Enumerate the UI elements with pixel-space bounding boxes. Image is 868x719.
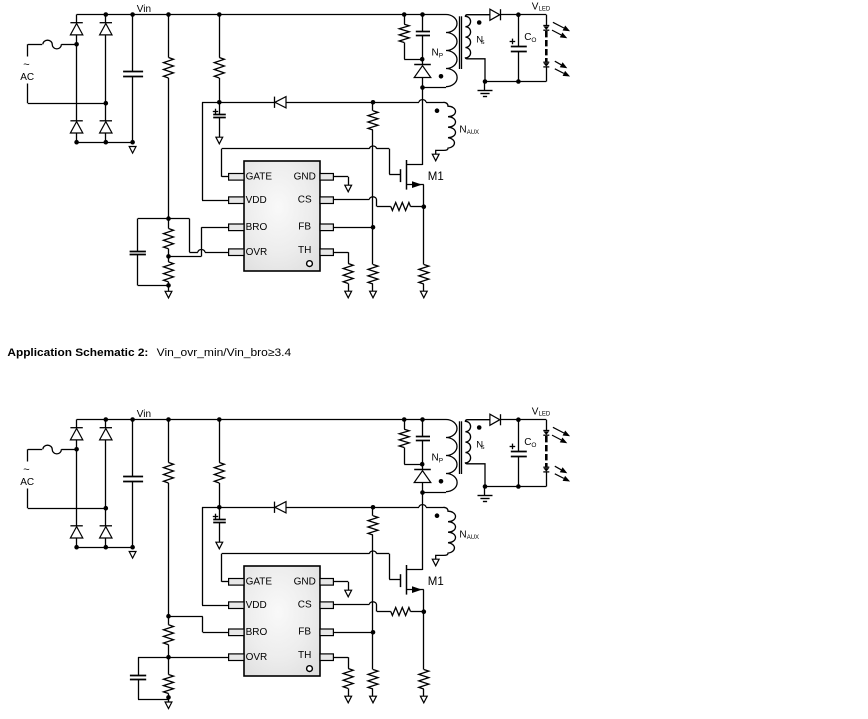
svg-text:Vin_ovr_min/Vin_bro≥3.4: Vin_ovr_min/Vin_bro≥3.4 [157,347,292,359]
svg-text:Application Schematic 2:: Application Schematic 2: [7,347,148,359]
